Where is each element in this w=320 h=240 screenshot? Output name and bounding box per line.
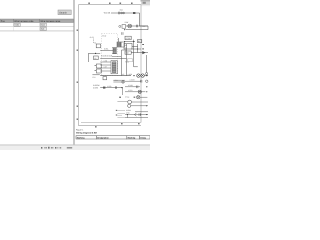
switch box S2 xyxy=(94,56,99,60)
legend header cell Marking xyxy=(76,136,96,140)
wire below block B xyxy=(112,53,117,55)
lamp E2 on bus xyxy=(137,74,141,78)
svg-text:Figure 1: Figure 1 xyxy=(76,128,84,131)
table tag row2 col3 xyxy=(40,27,46,30)
connector box beside A xyxy=(121,42,125,47)
wire lower b with branch xyxy=(125,113,148,116)
junction dots on bus xyxy=(133,75,147,76)
svg-text:0.5RB: 0.5RB xyxy=(93,86,99,89)
connector pins right of lamp xyxy=(136,25,137,28)
wire vertical x133 xyxy=(133,40,135,60)
status bar nav icons xyxy=(41,147,58,149)
wire center horizontal with connector xyxy=(100,85,122,89)
legend header cell Designation xyxy=(96,136,126,140)
table tag row1 col2 xyxy=(14,23,20,26)
svg-text:0.5W: 0.5W xyxy=(114,79,118,82)
margin stub ticks xyxy=(142,44,144,49)
svg-text:Wire harness code: Wire harness code xyxy=(14,20,34,23)
wire row1 lamp column xyxy=(125,78,148,82)
svg-text:E-3: E-3 xyxy=(93,76,96,79)
svg-text:Sub: Sub xyxy=(41,28,44,31)
faint aux box right of y58 wire xyxy=(128,59,133,62)
lamp E1 xyxy=(128,24,132,28)
svg-text:B-2: B-2 xyxy=(143,25,146,28)
legend header cell Marking 2 xyxy=(127,136,140,140)
bus wire bottom of center xyxy=(100,75,131,77)
wire relay right a xyxy=(132,46,138,48)
sensor box upper left xyxy=(95,64,102,68)
wire row b to connector C xyxy=(100,64,111,66)
wire pair upper of lamp column xyxy=(113,79,125,81)
wire lower c xyxy=(125,115,148,118)
wire row4 lamp column xyxy=(119,96,147,99)
svg-text:Designation: Designation xyxy=(97,136,109,139)
svg-text:Desig: Desig xyxy=(140,136,146,139)
lamp E3 on bus xyxy=(141,74,145,78)
switch box S4 xyxy=(125,51,131,55)
svg-text:SW: SW xyxy=(126,52,129,55)
connector block hatched B xyxy=(113,48,116,54)
wire into block A xyxy=(112,47,117,49)
status bar zoom text xyxy=(60,147,73,148)
dashed box control unit xyxy=(102,34,118,76)
motor M1 row xyxy=(117,100,148,104)
sensor box lower left xyxy=(95,69,102,73)
junction dot on y29 bus xyxy=(124,29,125,30)
label box right B2 xyxy=(137,40,141,43)
frame zone ticks top xyxy=(88,3,132,4)
svg-text:C101: C101 xyxy=(15,24,20,27)
legend header cell Designation 2 xyxy=(140,136,150,140)
wire row c to connector C xyxy=(100,65,111,68)
wire y41 with junctions xyxy=(124,41,135,42)
table header row xyxy=(0,19,74,23)
pane divider xyxy=(73,0,75,146)
connector box C outline xyxy=(111,61,117,74)
svg-text:Wiring diagram B-8M: Wiring diagram B-8M xyxy=(76,131,97,134)
status bar xyxy=(0,145,150,150)
relay K1 box xyxy=(124,43,132,49)
scrollbar nub top right xyxy=(141,0,151,6)
svg-text:21W: 21W xyxy=(125,21,129,24)
wire drop center top xyxy=(118,38,120,42)
svg-text:B2: B2 xyxy=(138,40,140,43)
wire vertical x137 xyxy=(137,44,139,53)
left pane button xyxy=(58,10,71,15)
svg-text:Wire harness name: Wire harness name xyxy=(40,20,61,23)
table tag row1 col3 xyxy=(40,23,46,26)
wire left stub with junction xyxy=(88,53,100,62)
connector strip C hatched xyxy=(112,62,116,73)
wire drop right xyxy=(140,13,149,26)
label block lower xyxy=(126,109,131,114)
wire row a to connector C xyxy=(100,59,111,62)
svg-text:Marking: Marking xyxy=(128,136,136,139)
connector J2 cluster left of lamp row xyxy=(119,25,126,35)
wire y58 long xyxy=(100,58,126,60)
wire lower a xyxy=(135,111,148,113)
wire with diode to margin xyxy=(131,52,148,54)
wire vertical below center xyxy=(122,88,124,95)
wire elbow below fuse column xyxy=(134,60,138,67)
connector block hatched A xyxy=(117,42,121,47)
frame bottom ticks xyxy=(95,123,140,127)
frame zone ticks left xyxy=(77,30,78,120)
wire mid with label xyxy=(100,48,113,51)
wire top horizontal xyxy=(111,12,140,14)
tall narrow box xyxy=(122,44,127,76)
wire row2 lamp column xyxy=(125,84,147,88)
wire y56 xyxy=(112,56,121,58)
component cluster with box B1 xyxy=(94,42,100,48)
dashed drop wire xyxy=(93,39,95,44)
svg-text:0.5Lg: 0.5Lg xyxy=(125,96,129,99)
svg-text:0.85L: 0.85L xyxy=(104,48,109,51)
svg-text:Marking: Marking xyxy=(77,136,85,139)
svg-text:S2: S2 xyxy=(94,57,96,60)
wire row d to connector C xyxy=(100,70,111,72)
wire bus to margin y29 xyxy=(126,29,148,31)
svg-text:0.5GR: 0.5GR xyxy=(130,78,136,81)
resistor block on bus xyxy=(103,77,107,80)
schematic frame xyxy=(79,5,142,126)
table grid xyxy=(0,23,74,31)
motor M2 row xyxy=(128,104,148,107)
wire row3 lamp column xyxy=(125,89,147,94)
label text block left mid xyxy=(93,84,100,90)
tiny stub labels xyxy=(116,110,117,116)
faint stub wires left of lower rows xyxy=(117,111,125,118)
wire sensor bottom with label xyxy=(92,75,99,79)
svg-text:Search: Search xyxy=(59,12,67,15)
connector at margin wire bottom xyxy=(146,73,148,75)
wire upper of lamp column with small circle xyxy=(113,79,125,83)
wire lamp row xyxy=(126,25,148,27)
svg-text:STOP: STOP xyxy=(126,37,132,40)
connector X1 on top wire xyxy=(118,12,124,15)
bus wire segment to margin xyxy=(144,75,148,77)
svg-text:Main: Main xyxy=(41,24,45,27)
svg-text:W1-2A: W1-2A xyxy=(104,11,111,14)
svg-text:G-01: G-01 xyxy=(90,36,94,39)
wire vertical right margin xyxy=(146,55,148,73)
wire relay right b xyxy=(131,48,141,49)
fuse F1 on top wire xyxy=(133,12,135,14)
svg-text:0.5GW 0.5GB: 0.5GW 0.5GB xyxy=(101,54,113,57)
diode D1 xyxy=(142,51,145,54)
label box S3 xyxy=(125,36,131,40)
